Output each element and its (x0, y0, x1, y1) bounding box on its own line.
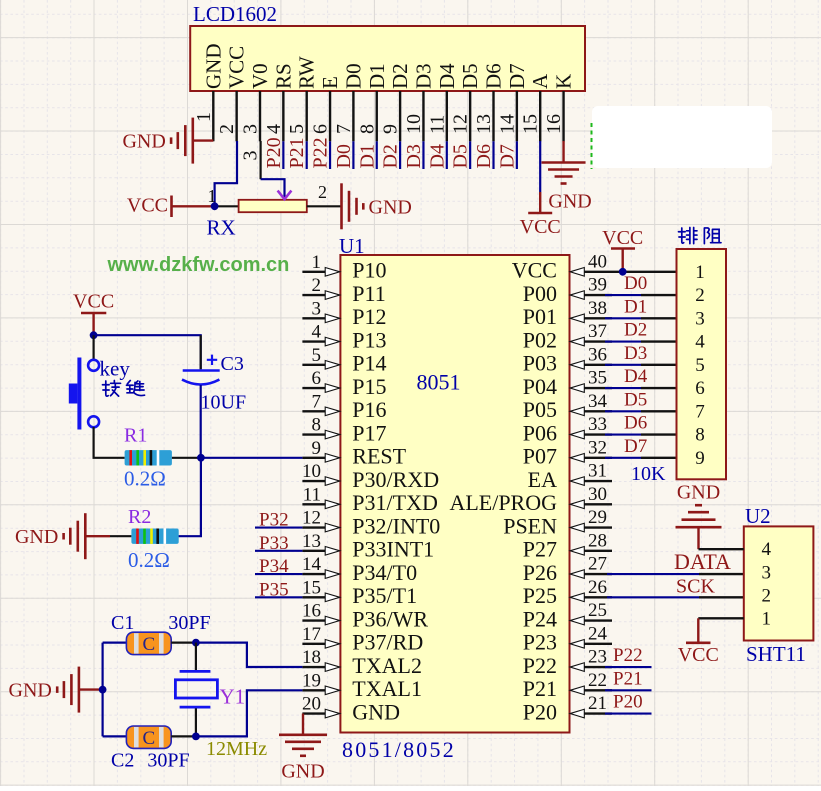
net label D2 (624, 320, 647, 341)
svg-text:C2: C2 (111, 750, 134, 772)
svg-text:P23: P23 (523, 630, 557, 655)
svg-text:P20: P20 (613, 692, 643, 713)
svg-text:9: 9 (380, 124, 402, 134)
svg-text:P17: P17 (352, 420, 386, 445)
net label D1 (356, 144, 378, 168)
svg-text:40: 40 (588, 251, 607, 272)
svg-text:P22: P22 (613, 645, 643, 666)
svg-text:Y1: Y1 (220, 685, 246, 709)
svg-text:4: 4 (695, 332, 705, 353)
svg-text:D7: D7 (624, 436, 647, 457)
svg-text:RW: RW (295, 56, 319, 89)
svg-text:D4: D4 (435, 63, 459, 89)
svg-text:P03: P03 (523, 351, 557, 376)
U1 pin 3 (302, 298, 339, 322)
svg-text:EA: EA (528, 467, 557, 492)
U1 pin 30 (570, 484, 612, 509)
net label D3 (403, 144, 425, 168)
svg-text:P34/T0: P34/T0 (352, 560, 417, 585)
LCD1602 pin 6 (310, 91, 332, 141)
wire node down to R2 (178, 458, 201, 536)
net label P22 (613, 645, 643, 666)
svg-text:REST: REST (352, 444, 406, 469)
svg-text:12: 12 (302, 508, 321, 529)
U1 pin 27 (570, 554, 612, 579)
wire U2 pin4 to ground (699, 548, 744, 550)
svg-text:P24: P24 (523, 606, 557, 631)
U1 pin 19 (302, 670, 340, 694)
net label P21 (613, 668, 643, 689)
wire LCD pin 7 net D0 (352, 141, 354, 169)
svg-text:D2: D2 (388, 63, 412, 89)
wire key bottom to R1 (94, 427, 125, 458)
wire LCD pin 14 net D7 (516, 141, 518, 169)
wire net P33 to U1 pin 13 (255, 550, 302, 552)
svg-text:5: 5 (695, 355, 705, 376)
svg-text:C: C (142, 634, 155, 655)
svg-text:P32: P32 (259, 510, 289, 531)
wire LCD pin15 (A) to VCC (539, 141, 541, 192)
svg-text:D5: D5 (624, 389, 647, 410)
svg-text:P25: P25 (523, 583, 557, 608)
svg-text:8051/8052: 8051/8052 (342, 737, 456, 762)
svg-text:P02: P02 (523, 327, 557, 352)
ground GND (LCD pin1) (122, 118, 192, 164)
wire net P21 (U1 pin 22) (605, 689, 652, 691)
net label D6 (624, 413, 647, 434)
svg-text:D4: D4 (624, 366, 648, 387)
svg-text:P05: P05 (523, 397, 557, 422)
svg-text:14: 14 (302, 554, 322, 575)
net label P20 (613, 692, 643, 713)
svg-text:8: 8 (695, 425, 705, 446)
svg-text:4: 4 (762, 539, 772, 560)
svg-text:P15: P15 (352, 374, 386, 399)
wire LCD pin 6 net P22 (329, 141, 331, 169)
junction VCC row40 (619, 268, 627, 276)
svg-text:P16: P16 (352, 397, 386, 422)
svg-text:17: 17 (302, 624, 321, 645)
U1 pin 21 (570, 693, 612, 718)
svg-text:K: K (552, 74, 576, 89)
svg-text:1: 1 (312, 252, 322, 273)
wire C1 to crystal top node (171, 641, 196, 643)
svg-text:24: 24 (588, 623, 608, 644)
svg-text:P11: P11 (352, 281, 385, 306)
net label P35 (259, 579, 289, 600)
wire U1 pin40 to RN1 pin1 (612, 271, 677, 273)
svg-text:P34: P34 (259, 556, 289, 577)
wire net P34 to U1 pin 14 (255, 573, 302, 575)
U1 pin 29 (570, 507, 612, 532)
svg-text:37: 37 (588, 321, 607, 342)
svg-text:A: A (528, 73, 552, 89)
svg-text:0.2Ω: 0.2Ω (128, 548, 170, 572)
svg-text:GND: GND (677, 482, 720, 504)
wire net D0 (U1 pin 39 to RN1 pin 2) (605, 294, 677, 296)
svg-text:D3: D3 (411, 63, 435, 89)
U1 pin 34 (570, 391, 612, 416)
svg-text:U1: U1 (339, 234, 365, 258)
svg-text:D7: D7 (505, 63, 529, 89)
wire LCD pin1 to ground (193, 139, 214, 141)
svg-text:2: 2 (695, 285, 705, 306)
svg-text:C3: C3 (221, 353, 244, 375)
svg-text:V0: V0 (248, 63, 272, 89)
svg-text:P27: P27 (523, 537, 557, 562)
svg-text:2: 2 (216, 124, 238, 134)
U1 pin 28 (570, 530, 612, 555)
svg-text:GND: GND (352, 699, 400, 724)
svg-text:P12: P12 (352, 304, 386, 329)
net label P21 (286, 137, 308, 168)
svg-text:P07: P07 (523, 444, 557, 469)
net label D1 (624, 296, 647, 317)
U1 pin 5 (302, 345, 339, 369)
svg-text:25: 25 (588, 600, 607, 621)
svg-text:P37/RD: P37/RD (352, 630, 423, 655)
wire LCD pin2 (VCC) to RX terminal 1 (215, 141, 237, 204)
svg-text:TXAL2: TXAL2 (352, 653, 422, 678)
wire net D1 (U1 pin 38 to RN1 pin 3) (605, 317, 677, 319)
svg-text:P20: P20 (523, 699, 557, 724)
svg-text:12: 12 (450, 114, 472, 134)
svg-text:9: 9 (695, 448, 705, 469)
ground GND (RX) (342, 183, 412, 229)
svg-text:D7: D7 (496, 144, 518, 168)
svg-text:P10: P10 (352, 258, 386, 283)
svg-text:D1: D1 (624, 296, 647, 317)
LCD1602 pin 12 (450, 91, 472, 141)
svg-text:13: 13 (302, 531, 321, 552)
svg-text:GND: GND (9, 680, 52, 702)
wire LCD pin 11 net D4 (446, 141, 448, 169)
U1 pin 38 (570, 298, 612, 323)
LCD1602 pin 5 (286, 91, 308, 141)
svg-text:VCC: VCC (73, 291, 114, 313)
svg-text:R1: R1 (124, 425, 147, 447)
svg-text:33: 33 (588, 414, 607, 435)
svg-text:19: 19 (302, 670, 321, 691)
svg-text:P00: P00 (523, 281, 557, 306)
U1 pin 10 (302, 461, 340, 485)
svg-text:D2: D2 (380, 144, 402, 168)
net label SCK (676, 575, 715, 597)
svg-text:18: 18 (302, 647, 321, 668)
svg-text:VCC: VCC (520, 216, 561, 238)
wire REST net (R1/C3 node to U1 pin9) (201, 457, 303, 459)
LCD1602 pin 15 (520, 91, 542, 141)
wire crystal left rail (103, 643, 127, 737)
net label D7 (496, 144, 518, 168)
svg-text:D3: D3 (403, 144, 425, 168)
svg-text:3: 3 (695, 308, 705, 329)
svg-text:P36/WR: P36/WR (352, 606, 428, 631)
LCD1602 pin 10 (403, 91, 425, 141)
svg-text:8: 8 (312, 415, 322, 436)
wire net P35 to U1 pin 15 (255, 596, 302, 598)
svg-text:32: 32 (588, 437, 607, 458)
U1 pin 15 (302, 577, 340, 601)
junction crystal left (99, 686, 107, 694)
wire crystal bottom node to U1 pin19 (TXAL1) (196, 690, 303, 736)
U1 pin 6 (302, 368, 339, 392)
wire LCD pin 9 net D2 (399, 141, 401, 169)
wire GND to crystal node (79, 688, 103, 690)
svg-text:D0: D0 (333, 144, 355, 168)
wire GND to R2 (85, 535, 131, 537)
net label D0 (333, 144, 355, 168)
wire VCC node to C3 top (94, 335, 201, 369)
svg-text:P22: P22 (523, 653, 557, 678)
junction crystal bottom (192, 733, 200, 741)
svg-text:ALE/PROG: ALE/PROG (449, 490, 557, 515)
wire net D5 (U1 pin 34 to RN1 pin 7) (605, 410, 677, 412)
svg-text:13: 13 (473, 114, 495, 134)
svg-text:11: 11 (303, 484, 321, 505)
svg-text:P14: P14 (352, 351, 386, 376)
svg-text:12MHz: 12MHz (206, 738, 267, 760)
svg-text:20: 20 (302, 694, 321, 715)
svg-text:3: 3 (762, 562, 772, 583)
ground GND (R2) (15, 513, 85, 559)
svg-text:7: 7 (695, 401, 705, 422)
green dashed selection line (591, 123, 593, 169)
wire R1 to node (172, 457, 201, 459)
svg-text:D1: D1 (365, 63, 389, 89)
IC U2 SHT11 (744, 504, 814, 666)
U1 pin 12 (302, 508, 340, 532)
svg-text:LCD1602: LCD1602 (193, 2, 277, 26)
svg-text:VCC: VCC (512, 258, 557, 283)
label 按键 (push button) (102, 380, 144, 396)
svg-text:C1: C1 (111, 612, 134, 634)
net label DATA (674, 549, 731, 574)
svg-text:16: 16 (302, 601, 321, 622)
svg-text:35: 35 (588, 368, 607, 389)
svg-text:P21: P21 (523, 676, 557, 701)
svg-text:D6: D6 (624, 413, 647, 434)
svg-text:P26: P26 (523, 560, 557, 585)
svg-text:1: 1 (193, 112, 215, 122)
svg-text:U2: U2 (745, 504, 771, 528)
net label D5 (624, 389, 647, 410)
svg-text:4: 4 (263, 124, 285, 134)
svg-text:D5: D5 (458, 63, 482, 89)
svg-text:VCC: VCC (678, 644, 719, 666)
wire LCD pin 12 net D5 (469, 141, 471, 169)
svg-text:6: 6 (310, 124, 332, 134)
svg-text:D4: D4 (426, 144, 448, 168)
LCD1602 pin 2 (216, 91, 238, 141)
U1 pin 14 (302, 554, 340, 578)
power VCC (LCD pin15) (520, 192, 561, 238)
potentiometer RX (207, 182, 328, 240)
junction at VCC/key node (90, 331, 98, 339)
svg-text:28: 28 (588, 530, 607, 551)
wire net SCK (U1 pin26 to U2 pin2) (607, 596, 744, 598)
wire net P32 to U1 pin 12 (255, 526, 302, 528)
svg-text:VCC: VCC (225, 46, 249, 89)
svg-text:21: 21 (588, 693, 607, 714)
U1 pin 35 (570, 368, 612, 393)
wire LCD pin 8 net D1 (376, 141, 378, 169)
svg-text:3: 3 (240, 124, 262, 134)
LCD1602 pin 16 (543, 91, 565, 141)
wire net P22 (U1 pin 23) (605, 666, 652, 668)
ground GND (LCD pin16) (542, 163, 592, 213)
wire net D2 (U1 pin 37 to RN1 pin 4) (605, 340, 677, 342)
net label P32 (259, 510, 289, 531)
net label P33 (259, 533, 289, 554)
svg-text:PSEN: PSEN (503, 513, 557, 538)
wire U1 pin20 to ground (302, 714, 304, 735)
wire LCD pin 5 net P21 (306, 141, 308, 169)
value label 12MHz (206, 738, 267, 760)
svg-text:30PF: 30PF (168, 612, 210, 634)
net label 3 (240, 151, 262, 161)
svg-text:8: 8 (356, 124, 378, 134)
junction R1/C3/REST node (197, 454, 205, 462)
svg-text:GND: GND (201, 44, 225, 89)
crystal Y1 (175, 643, 245, 737)
connector LCD1602 (190, 2, 585, 91)
svg-text:VCC: VCC (127, 195, 168, 217)
svg-text:23: 23 (588, 647, 607, 668)
U1 pin 16 (302, 601, 340, 625)
svg-text:10K: 10K (631, 463, 666, 485)
U1 pin 1 (302, 252, 339, 276)
net label P22 (310, 137, 332, 168)
svg-text:P30/RXD: P30/RXD (352, 467, 439, 492)
net label D2 (380, 144, 402, 168)
white patch annotation (592, 106, 772, 168)
capacitor C2 (111, 726, 190, 772)
svg-text:P13: P13 (352, 327, 386, 352)
svg-text:P31/TXD: P31/TXD (352, 490, 438, 515)
svg-text:C: C (142, 728, 155, 749)
net label D5 (450, 144, 472, 168)
net label P20 (263, 137, 285, 168)
svg-text:6: 6 (312, 368, 322, 389)
wire U2 pin1 to VCC (698, 617, 744, 619)
watermark www.dzkfw.com.cn (107, 254, 290, 276)
label 排阻 (resistor network) (678, 227, 721, 243)
svg-text:39: 39 (588, 275, 607, 296)
U1 pin 26 (570, 577, 612, 602)
svg-text:29: 29 (588, 507, 607, 528)
svg-text:5: 5 (286, 124, 308, 134)
svg-text:D0: D0 (341, 63, 365, 89)
svg-text:D2: D2 (624, 320, 647, 341)
svg-text:1: 1 (208, 186, 217, 206)
wire LCD pin16 (K) to ground (562, 141, 564, 162)
wire LCD pin 4 net P20 (282, 141, 284, 169)
U1 pin 9 (302, 438, 339, 462)
ground GND (crystal) (9, 667, 79, 713)
svg-text:1: 1 (762, 609, 772, 630)
LCD1602 pin 4 (263, 91, 285, 141)
svg-text:P01: P01 (523, 304, 557, 329)
resistor R2 (128, 506, 179, 572)
LCD1602 pin 1 (193, 91, 215, 141)
U1 pin 37 (570, 321, 612, 346)
net label D4 (426, 144, 448, 168)
svg-text:SHT11: SHT11 (746, 642, 806, 666)
svg-text:3: 3 (312, 298, 322, 319)
svg-text:2: 2 (762, 585, 772, 606)
capacitor C1 (111, 612, 211, 655)
power VCC (key) (73, 291, 114, 336)
U1 pin 36 (570, 344, 612, 369)
wire LCD pin3 (V0) to RX wiper (261, 141, 285, 198)
U1 pin 4 (302, 322, 339, 346)
power VCC (U1 pin40) (602, 227, 643, 272)
svg-text:3: 3 (240, 151, 262, 161)
junction crystal top (192, 639, 200, 647)
svg-text:R2: R2 (128, 506, 151, 528)
svg-text:P06: P06 (523, 420, 557, 445)
U1 pin 33 (570, 414, 612, 439)
U1 pin 18 (302, 647, 340, 671)
U1 pin 17 (302, 624, 340, 648)
svg-text:D6: D6 (473, 144, 495, 168)
svg-text:5: 5 (312, 345, 322, 366)
svg-text:0.2Ω: 0.2Ω (124, 467, 166, 491)
ground GND (RN1) (676, 482, 722, 550)
LCD1602 pin 9 (380, 91, 402, 141)
U1 pin 40 (570, 251, 612, 276)
U1 pin 39 (570, 275, 612, 300)
wire VCC to RX terminal 1 (213, 205, 239, 207)
U1 pin 2 (302, 275, 339, 299)
svg-text:P35/T1: P35/T1 (352, 583, 417, 608)
svg-text:key: key (100, 357, 131, 381)
svg-text:10: 10 (403, 114, 425, 134)
svg-text:30: 30 (588, 484, 607, 505)
U1 pin 22 (570, 670, 612, 695)
svg-text:30PF: 30PF (147, 750, 189, 772)
resistor R1 (124, 425, 172, 491)
U1 pin 23 (570, 647, 612, 672)
wire net D3 (U1 pin 36 to RN1 pin 5) (605, 364, 677, 366)
svg-text:38: 38 (588, 298, 607, 319)
svg-text:15: 15 (302, 577, 321, 598)
svg-text:P04: P04 (523, 374, 557, 399)
IC U1 8051 (339, 234, 570, 762)
switch S1 key (69, 357, 131, 430)
svg-text:P35: P35 (259, 579, 289, 600)
svg-text:DATA: DATA (674, 549, 731, 574)
svg-text:14: 14 (496, 114, 518, 134)
wire net D6 (U1 pin 33 to RN1 pin 8) (605, 433, 677, 435)
svg-text:SCK: SCK (676, 575, 715, 597)
LCD1602 pin 8 (356, 91, 378, 141)
wire LCD pin 13 net D6 (492, 141, 494, 169)
svg-text:P21: P21 (286, 137, 308, 168)
svg-text:D3: D3 (624, 343, 647, 364)
svg-text:7: 7 (333, 124, 355, 134)
capacitor C3 (182, 335, 246, 458)
svg-text:GND: GND (15, 526, 58, 548)
svg-text:E: E (318, 76, 342, 89)
LCD1602 pin 3 (240, 91, 262, 141)
wire LCD pin 10 net D3 (422, 141, 424, 169)
ground GND (U1 pin20) (279, 735, 327, 783)
wire net P20 (U1 pin 21) (605, 712, 652, 714)
power VCC (RX) (127, 195, 213, 218)
net label D6 (473, 144, 495, 168)
